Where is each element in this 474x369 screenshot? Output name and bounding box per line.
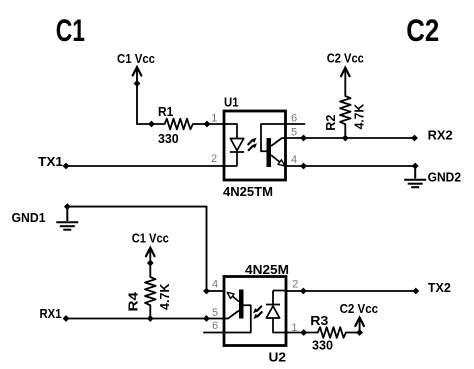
svg-text:TX1: TX1 — [38, 154, 63, 169]
svg-text:C1: C1 — [56, 12, 85, 48]
svg-text:4.7K: 4.7K — [157, 283, 172, 310]
svg-text:C1 Vcc: C1 Vcc — [117, 51, 155, 66]
svg-text:4N25M: 4N25M — [245, 262, 289, 277]
svg-text:R1: R1 — [158, 104, 173, 119]
svg-text:C2 Vcc: C2 Vcc — [340, 301, 379, 316]
svg-text:330: 330 — [158, 131, 179, 146]
svg-text:2: 2 — [211, 153, 217, 165]
svg-text:2: 2 — [292, 278, 298, 290]
svg-text:4N25TM: 4N25TM — [223, 184, 273, 199]
svg-text:1: 1 — [291, 322, 297, 334]
svg-text:GND2: GND2 — [428, 170, 462, 185]
svg-text:C2: C2 — [406, 12, 439, 48]
svg-text:6: 6 — [212, 320, 218, 332]
svg-text:5: 5 — [291, 126, 297, 138]
svg-text:C1 Vcc: C1 Vcc — [132, 231, 169, 246]
svg-text:1: 1 — [211, 113, 217, 125]
svg-text:R4: R4 — [126, 291, 141, 311]
svg-text:4: 4 — [291, 154, 297, 166]
svg-text:R2: R2 — [323, 115, 338, 131]
svg-text:5: 5 — [212, 307, 218, 319]
svg-text:TX2: TX2 — [428, 280, 451, 295]
svg-text:RX1: RX1 — [40, 306, 62, 321]
svg-text:GND1: GND1 — [12, 210, 46, 225]
svg-text:C2 Vcc: C2 Vcc — [327, 51, 364, 66]
svg-text:RX2: RX2 — [428, 128, 453, 143]
svg-text:U2: U2 — [269, 349, 287, 364]
svg-text:6: 6 — [291, 113, 297, 125]
svg-text:330: 330 — [312, 338, 333, 353]
svg-text:R3: R3 — [310, 313, 328, 328]
svg-text:U1: U1 — [224, 95, 239, 110]
svg-text:4: 4 — [212, 278, 218, 290]
svg-text:4.7K: 4.7K — [351, 103, 366, 129]
